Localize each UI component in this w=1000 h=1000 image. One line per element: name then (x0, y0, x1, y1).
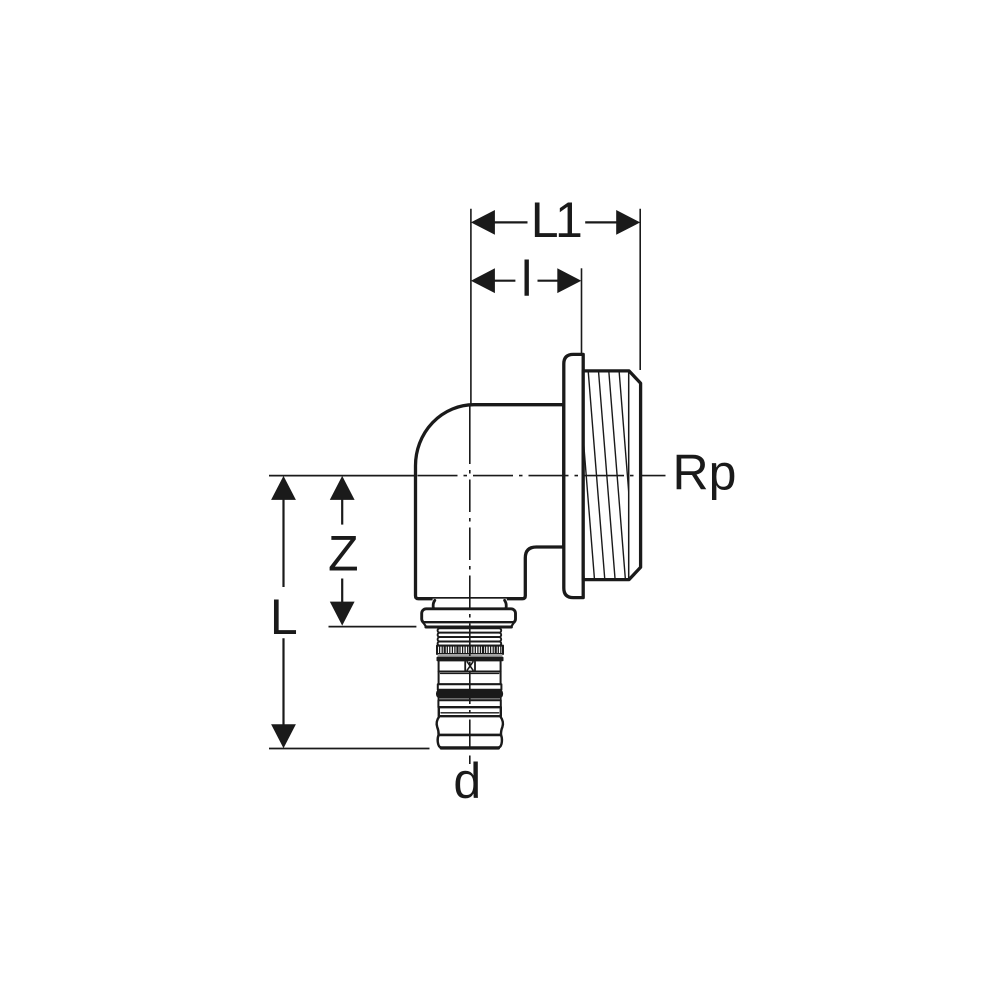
arrowhead L1 right (616, 210, 640, 235)
spigot neck (433, 599, 507, 610)
arrowhead L1 left (471, 210, 495, 235)
thread root line (628, 372, 630, 580)
spigot tip (438, 735, 502, 748)
extension line Z bottom (329, 626, 417, 628)
arrowhead L up (271, 476, 296, 500)
arrowhead l left (471, 268, 495, 293)
extension line L1/l left (470, 209, 472, 405)
elbow body outline (415, 405, 563, 599)
arrowhead l right (557, 268, 581, 293)
bands below o-ring (438, 698, 500, 700)
extension line L1 right (639, 209, 641, 370)
dimension line L (282, 499, 284, 587)
knurled ring (437, 646, 503, 654)
spigot collar (422, 609, 516, 624)
extension line L bottom (269, 748, 430, 750)
barb bulge (437, 716, 503, 735)
vertical centerline (469, 405, 471, 764)
horizontal centerline Rp axis (416, 475, 666, 477)
arrowhead Z down (330, 602, 355, 626)
dimension line Z (341, 499, 343, 525)
svg-text:L: L (270, 589, 298, 645)
extension line L/Z top (269, 475, 416, 477)
o-ring band (black) (437, 690, 503, 698)
dimension line L1 (493, 221, 528, 223)
spigot grooved rings (438, 628, 502, 632)
flange plate (564, 354, 583, 597)
svg-text:Rp: Rp (673, 444, 737, 500)
barrel bands (439, 672, 501, 685)
marking band IXI (439, 660, 501, 671)
svg-text:d: d (453, 753, 481, 809)
svg-text:1: 1 (555, 192, 583, 248)
arrowhead Z up (330, 476, 355, 500)
arrowhead L down (271, 724, 296, 748)
dimension line l (493, 280, 515, 282)
threaded male end Rp (583, 371, 640, 580)
extension line l right (581, 268, 583, 354)
sleeve band (439, 707, 501, 716)
svg-text:l: l (521, 251, 532, 307)
thread hatching (568, 371, 646, 580)
svg-text:Z: Z (328, 526, 359, 582)
